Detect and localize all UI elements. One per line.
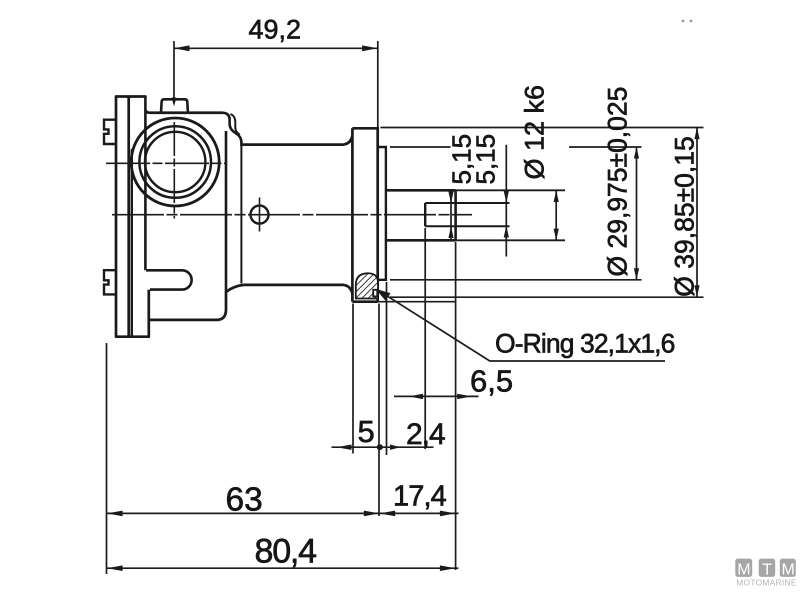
bolt hole — [251, 206, 269, 224]
flange — [352, 128, 377, 301]
body neck S-curve top right — [223, 113, 241, 146]
extension line shaft end down — [455, 242, 457, 570]
extension line boss right down — [386, 282, 388, 455]
svg-text:Ø 29,975±0,025: Ø 29,975±0,025 — [603, 87, 633, 277]
svg-text:M: M — [737, 562, 750, 579]
svg-text:80,4: 80,4 — [255, 533, 317, 571]
svg-text:5,15: 5,15 — [471, 134, 501, 185]
svg-text:49,2: 49,2 — [249, 15, 302, 45]
port middle circle — [139, 126, 211, 198]
shaft top edge — [386, 189, 456, 192]
body left face — [145, 97, 150, 271]
top lug — [161, 99, 188, 112]
keyway left edge — [424, 203, 426, 226]
svg-text:17,4: 17,4 — [393, 481, 447, 513]
foot left vertical — [147, 290, 150, 337]
svg-text:Ø 39,85±0,15: Ø 39,85±0,15 — [670, 136, 700, 296]
svg-text:T: T — [762, 562, 772, 579]
dimension 80,4 line — [107, 567, 459, 569]
dimension 5,15 first line — [450, 190, 452, 242]
extension line keyway left down — [424, 228, 426, 449]
pump back plate outer face — [116, 97, 149, 337]
dimension 49,2 line — [174, 47, 378, 49]
extension line boss bottom — [390, 279, 642, 281]
O-ring section hatched — [356, 273, 378, 298]
pump back plate inner layer — [131, 150, 133, 337]
extension line flange bottom right — [390, 296, 704, 298]
extension line right 49,2 / flange — [377, 41, 379, 127]
svg-text:O-Ring 32,1x1,6: O-Ring 32,1x1,6 — [495, 329, 675, 359]
port inner circle — [145, 132, 205, 192]
keyway bottom edge with extension — [425, 225, 509, 227]
keyway top edge with extension — [425, 202, 509, 204]
body neck inner curl — [231, 114, 240, 135]
dimension Ø12 line — [555, 190, 557, 240]
O-ring leader arrow — [378, 290, 665, 361]
main centerline — [112, 214, 472, 216]
shaft bottom edge — [386, 239, 456, 242]
extension line flange right down — [378, 304, 380, 517]
flange bottom edge extension — [378, 301, 456, 303]
MTM logo — [735, 559, 797, 588]
cylinder top edge — [241, 136, 352, 145]
svg-text:5: 5 — [358, 414, 375, 449]
svg-text:Ø 12 k6: Ø 12 k6 — [520, 85, 550, 180]
dimension 6,5 line — [394, 395, 479, 397]
port crosshair horizontal — [106, 162, 227, 164]
dimension Ø29,975 line — [636, 147, 638, 280]
lower mounting tab — [104, 270, 116, 294]
body cylinder interface edge — [240, 146, 242, 284]
svg-text:6,5: 6,5 — [470, 364, 513, 399]
port crosshair vertical — [173, 122, 175, 219]
foot slot cutout — [146, 270, 192, 289]
body top edge — [150, 111, 223, 114]
extension line flange top to right — [381, 127, 704, 129]
dimension 63 / 17,4 line — [107, 512, 459, 514]
svg-text:M: M — [782, 562, 795, 579]
svg-text:63: 63 — [226, 482, 263, 519]
bolt hole crosshair vertical — [259, 198, 261, 232]
extension line left 49,2 — [173, 41, 175, 103]
svg-text:MOTOMARINE: MOTOMARINE — [736, 577, 797, 587]
shaft boss — [378, 147, 386, 280]
svg-text:2,4: 2,4 — [406, 418, 445, 451]
cylinder bottom edge — [226, 285, 352, 294]
port boss outer circle — [131, 118, 219, 206]
paper specks — [682, 20, 685, 23]
shaft top extension to Ø12 — [456, 189, 565, 191]
body right face — [225, 131, 228, 293]
dimension 5 / 2,4 line — [332, 446, 434, 448]
shaft end face — [454, 190, 457, 240]
dimension Ø39,85 line — [696, 127, 698, 297]
dimension 5,15 second line — [505, 145, 507, 257]
upper mounting tab — [104, 120, 116, 144]
extension line boss top segments — [390, 146, 642, 148]
foot outline — [149, 291, 226, 320]
extension line flange left down — [352, 304, 354, 454]
extension line pump left down — [106, 343, 108, 574]
shaft bottom extension to Ø12 — [456, 239, 565, 241]
